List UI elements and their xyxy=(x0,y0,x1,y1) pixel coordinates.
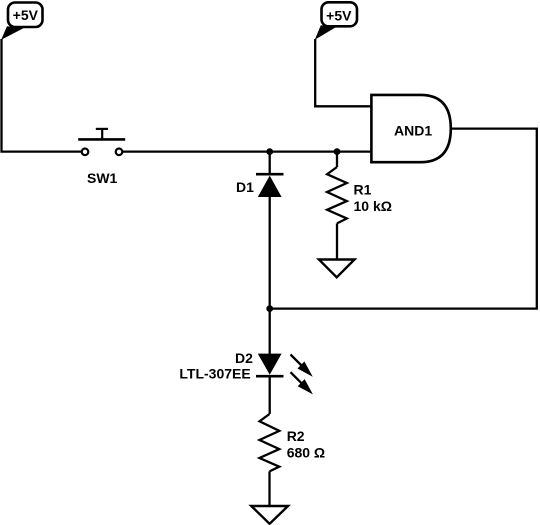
wire from left +5V flag down xyxy=(2,39,82,152)
svg-text:D1: D1 xyxy=(236,179,254,195)
wire LED cathode to R2 xyxy=(269,376,271,414)
ground (below R1) xyxy=(319,260,355,278)
wire junction to D1 cathode xyxy=(269,152,271,175)
resistor R1 xyxy=(327,152,392,260)
svg-text:+5V: +5V xyxy=(326,7,352,23)
node junction feedback/LED xyxy=(266,305,273,312)
power flag +5V (left) xyxy=(1,3,42,40)
power flag +5V (right) xyxy=(315,2,357,40)
svg-text:R2: R2 xyxy=(287,428,305,444)
wire from right +5V flag to AND gate upper input xyxy=(315,39,371,106)
resistor R2 xyxy=(260,414,326,506)
ground (below R2) xyxy=(251,506,288,524)
svg-text:680 Ω: 680 Ω xyxy=(287,444,325,460)
switch SW1 xyxy=(78,129,125,186)
node junction at R1 top xyxy=(334,148,341,155)
svg-text:LTL-307EE: LTL-307EE xyxy=(179,365,250,381)
LED light arrow 2 xyxy=(291,372,313,394)
LED D2 xyxy=(179,350,283,382)
svg-text:D2: D2 xyxy=(235,350,253,366)
svg-text:R1: R1 xyxy=(354,181,372,197)
svg-text:AND1: AND1 xyxy=(394,122,432,138)
node junction at D1 top xyxy=(266,148,273,155)
svg-text:10 kΩ: 10 kΩ xyxy=(354,198,392,214)
wire AND1 output to feedback node xyxy=(270,129,537,309)
svg-text:+5V: +5V xyxy=(13,7,39,23)
svg-text:SW1: SW1 xyxy=(87,170,118,186)
LED light arrow 1 xyxy=(291,355,313,377)
op-amp AND gate AND1 xyxy=(371,95,450,162)
wire D1 anode down to LED junction xyxy=(269,196,271,354)
wire from SW1 to AND gate lower input xyxy=(122,150,371,152)
diode D1 xyxy=(236,174,284,197)
